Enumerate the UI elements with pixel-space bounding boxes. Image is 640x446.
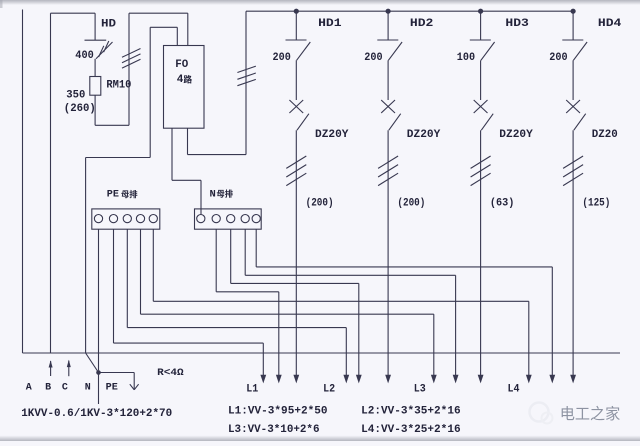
breaker QF2 DZ20Y [387,60,389,100]
wire: drop into FO box [187,13,189,45]
breaker QF1 DZ20Y [295,60,297,100]
svg-text:A: A [26,382,32,393]
svg-text:母排: 母排 [217,189,234,199]
wire: fuse down [94,95,96,125]
wire: incoming supply riser [22,10,24,354]
svg-text:HD3: HD3 [505,18,529,30]
wire: FO bottom to N busbar [171,128,173,180]
node bus tap HD1 [294,9,299,14]
wire: left riser x85.6 down to earth run [85,158,87,354]
switch QS1 (HD1 feeder isolator) [295,11,297,40]
wire PE feed to L4 [152,229,154,301]
wire: main distribution bus [246,10,574,12]
svg-text:N: N [210,188,216,200]
switch HD (400A knife switch) [85,39,107,41]
svg-text:L3: L3 [414,383,426,395]
top-left corner scan mark [0,0,3,8]
wire N feed to L1 [215,229,217,292]
fuse RM10 [90,77,101,96]
svg-text:L2: L2 [323,383,335,395]
wire: feeder 3 phase drop [480,130,482,376]
node bus tap HD2 [386,9,391,14]
switch QS4 (HD4 feeder isolator) [572,11,574,40]
wire: HD switch drop [94,13,96,40]
switch QS2 (HD2 feeder isolator) [387,11,389,40]
wire: feeder 1 phase drop [295,130,297,376]
ground arrow (earthing electrode) [133,373,135,390]
svg-text:HD1: HD1 [318,18,342,30]
3-phase slashes feeder 3 [471,156,491,168]
box FO (main breaker cabinet) [164,46,205,129]
svg-text:L1:VV-3*95+2*50: L1:VV-3*95+2*50 [228,405,328,417]
supply phase arrows B C [50,361,52,376]
svg-text:(63): (63) [490,197,515,209]
PE busbar terminals [94,215,102,223]
svg-text:DZ20Y: DZ20Y [315,129,349,141]
svg-text:B: B [45,382,51,393]
breaker QF3 DZ20Y [480,60,482,100]
svg-text:DZ20: DZ20 [592,129,618,141]
wire: bus riser x246 [245,11,247,154]
wire N feed to L2 [230,229,232,283]
wire PE feed to L3 [140,229,142,314]
wire: long PE/earth horizontal run [23,352,621,354]
switch QS3 (HD3 feeder isolator) [480,11,482,40]
svg-text:L2:VV-3*35+2*16: L2:VV-3*35+2*16 [361,405,461,417]
3-phase slashes on riser x129 [122,49,141,58]
busbar PE box [92,209,160,229]
svg-text:HD: HD [101,19,116,31]
svg-text:HD4: HD4 [598,18,622,30]
3-phase slashes feeder 1 [286,156,306,168]
node bus tap HD4 [571,9,576,14]
wire: main loop riser to HD switch [50,13,52,353]
svg-text:200: 200 [273,52,291,64]
svg-text:DZ20Y: DZ20Y [407,129,441,141]
node PE junction dot [96,370,101,375]
N busbar terminals [197,215,205,223]
3-phase slashes feeder 4 [563,156,583,168]
wire: inner top horizontal [150,26,177,28]
wire: bottom of fuse loop [95,124,129,126]
wire: switch to fuse [94,59,96,77]
svg-text:(125): (125) [582,197,610,209]
svg-text:400: 400 [75,50,94,62]
wire: feeder 2 phase drop [387,130,389,376]
wire PE-1: to main earthing node [98,229,100,370]
wire: diagonal into PE node [86,353,99,373]
svg-text:R<4Ω: R<4Ω [157,367,184,379]
wire: inner riser x150 [149,27,151,157]
svg-text:(200): (200) [306,197,334,209]
wire PE feed to L1 [113,229,115,343]
svg-text:350: 350 [66,90,85,102]
svg-text:(260): (260) [64,103,96,115]
svg-text:L1: L1 [246,383,258,395]
svg-text:1KVV-0.6/1KV-3*120+2*70: 1KVV-0.6/1KV-3*120+2*70 [21,408,172,420]
wire: FO bottom to main bus riser [187,128,189,154]
svg-text:200: 200 [549,52,567,64]
svg-text:N: N [85,382,91,393]
svg-text:200: 200 [364,52,382,64]
wire: horizontal y157 to left [86,157,151,159]
svg-text:PE: PE [106,382,118,393]
wire: feeder 4 phase drop [572,130,574,376]
wire N feed to L3 [244,229,246,275]
breaker QF4 DZ20 [572,60,574,100]
wire N feed to L4 [255,229,257,267]
3-phase slashes on bus riser [237,66,255,72]
watermark icon [530,403,549,422]
svg-text:PE: PE [107,189,119,201]
svg-text:FO: FO [175,59,188,71]
3-phase slashes feeder 2 [378,156,398,168]
svg-text:(200): (200) [397,197,425,209]
svg-text:路: 路 [184,74,193,84]
svg-text:L4:VV-3*25+2*16: L4:VV-3*25+2*16 [361,424,461,436]
svg-text:L3:VV-3*10+2*6: L3:VV-3*10+2*6 [228,424,320,436]
wire: FO top inner drop [176,27,178,45]
svg-text:L4: L4 [508,383,520,395]
svg-text:母排: 母排 [121,189,138,199]
svg-text:RM10: RM10 [106,80,131,92]
wire PE feed to L2 [126,229,128,327]
svg-text:C: C [62,382,68,393]
svg-text:HD2: HD2 [410,18,434,30]
busbar N box [195,209,262,229]
wire: top-left horizontal to HD switch [51,12,96,14]
wire: loop riser x129 [128,13,130,125]
svg-text:电工之家: 电工之家 [560,406,621,423]
node bus tap HD3 [478,9,483,14]
svg-text:DZ20Y: DZ20Y [499,129,533,141]
svg-text:100: 100 [457,52,475,64]
wire: top horizontal x129-x188 [129,12,188,14]
